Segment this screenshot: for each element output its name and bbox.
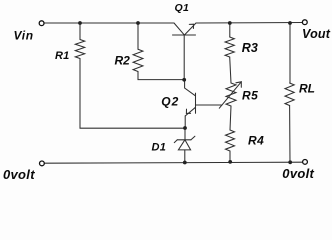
svg-text:R5: R5: [242, 88, 258, 102]
svg-text:0volt: 0volt: [3, 167, 35, 182]
svg-text:R1: R1: [55, 50, 69, 62]
svg-text:RL: RL: [299, 82, 315, 96]
svg-text:D1: D1: [152, 142, 167, 154]
svg-text:0volt: 0volt: [282, 166, 314, 181]
svg-text:R2: R2: [115, 54, 131, 68]
svg-text:Vout: Vout: [302, 27, 331, 41]
svg-text:R4: R4: [248, 133, 264, 147]
svg-text:Vin: Vin: [14, 29, 34, 43]
svg-text:Q1: Q1: [175, 2, 190, 14]
svg-text:R3: R3: [242, 41, 258, 55]
svg-text:Q2: Q2: [161, 95, 179, 109]
